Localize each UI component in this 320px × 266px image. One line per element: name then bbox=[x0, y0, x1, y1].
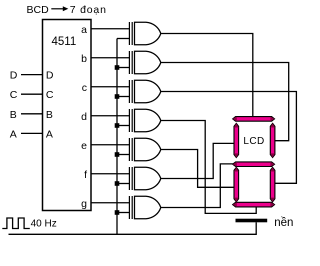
svg-text:D: D bbox=[46, 70, 54, 82]
svg-text:B: B bbox=[10, 109, 17, 121]
wire clock stub to gate 5 bbox=[117, 154, 129, 156]
svg-text:a: a bbox=[81, 24, 87, 36]
wire gate output g to LCD segment g bbox=[161, 164, 233, 208]
svg-text:4511: 4511 bbox=[52, 36, 77, 48]
svg-text:c: c bbox=[82, 82, 87, 94]
svg-text:C: C bbox=[46, 89, 54, 101]
wire input C bbox=[21, 93, 43, 95]
junction dot on clock bus at gate 5 bbox=[115, 152, 120, 157]
svg-text:40 Hz: 40 Hz bbox=[31, 219, 57, 230]
xor gate G1 bbox=[129, 22, 160, 45]
wire 40Hz to backplane bbox=[9, 222, 257, 234]
wire output a from 4511 to gate bbox=[91, 28, 129, 30]
xor gate G5 bbox=[129, 138, 160, 161]
LCD segment g bbox=[233, 162, 275, 167]
svg-text:d: d bbox=[81, 111, 87, 123]
wire gate output a to LCD segment a bbox=[161, 34, 253, 117]
wire clock stub to gate 2 bbox=[117, 67, 129, 69]
junction dot on clock bus at gate 7 bbox=[115, 210, 120, 215]
LCD segment d bbox=[233, 202, 275, 207]
wire clock stub to gate 4 bbox=[117, 125, 129, 127]
LCD segment b bbox=[270, 123, 275, 157]
junction dot on clock bus at gate 3 bbox=[115, 94, 120, 99]
wire input D bbox=[21, 74, 43, 76]
wire output e from 4511 to gate bbox=[91, 144, 129, 146]
svg-text:D: D bbox=[10, 70, 18, 82]
arrow in title bbox=[51, 6, 68, 11]
wire output g from 4511 to gate bbox=[91, 202, 129, 204]
svg-text:B: B bbox=[46, 109, 53, 121]
wire clock stub to gate 3 bbox=[117, 96, 129, 98]
svg-text:7 đoạn: 7 đoạn bbox=[70, 4, 107, 16]
LCD segment e bbox=[234, 167, 239, 201]
wire output f from 4511 to gate bbox=[91, 173, 129, 175]
svg-text:b: b bbox=[81, 53, 87, 65]
svg-text:g: g bbox=[81, 198, 87, 210]
svg-text:e: e bbox=[81, 140, 87, 152]
svg-text:BCD: BCD bbox=[27, 4, 50, 16]
xor gate G7 bbox=[129, 196, 160, 219]
wire gate output d to LCD segment d bbox=[161, 121, 256, 214]
wire input B bbox=[21, 113, 43, 115]
wire 40Hz clock bus vertical bbox=[116, 39, 118, 235]
xor gate G6 bbox=[129, 167, 160, 190]
wire clock stub to gate 7 bbox=[117, 212, 129, 214]
wire output d from 4511 to gate bbox=[91, 115, 129, 117]
wire clock stub to gate 6 bbox=[117, 183, 129, 185]
LCD segment a bbox=[233, 117, 275, 122]
svg-text:f: f bbox=[84, 169, 87, 181]
LCD segment c bbox=[270, 167, 275, 201]
wire gate output e to LCD segment e bbox=[161, 150, 234, 188]
40Hz square wave symbol bbox=[2, 218, 30, 229]
svg-text:C: C bbox=[10, 89, 18, 101]
wire clock stub to gate 1 bbox=[117, 38, 129, 40]
LCD segment f bbox=[234, 123, 239, 157]
junction dot on clock bus at gate 4 bbox=[115, 123, 120, 128]
xor gate G4 bbox=[129, 109, 160, 132]
wire gate output c to LCD segment c bbox=[161, 92, 297, 184]
svg-text:A: A bbox=[46, 128, 53, 140]
IC U1 4511 decoder bbox=[43, 20, 92, 211]
xor gate G2 bbox=[129, 51, 160, 74]
LCD backplane bar (nen) bbox=[236, 219, 268, 223]
junction dot on clock bus at gate 2 bbox=[115, 65, 120, 70]
wire output c from 4511 to gate bbox=[91, 86, 129, 88]
junction dot on clock bus at gate 6 bbox=[115, 181, 120, 186]
svg-text:nền: nền bbox=[274, 217, 293, 229]
wire output b from 4511 to gate bbox=[91, 57, 129, 59]
svg-text:A: A bbox=[10, 128, 17, 140]
svg-text:LCD: LCD bbox=[243, 136, 264, 147]
wire gate output b to LCD segment b bbox=[161, 63, 289, 141]
wire input A bbox=[21, 132, 43, 134]
xor gate G3 bbox=[129, 80, 160, 103]
wire gate output f to LCD segment f bbox=[161, 143, 234, 178]
